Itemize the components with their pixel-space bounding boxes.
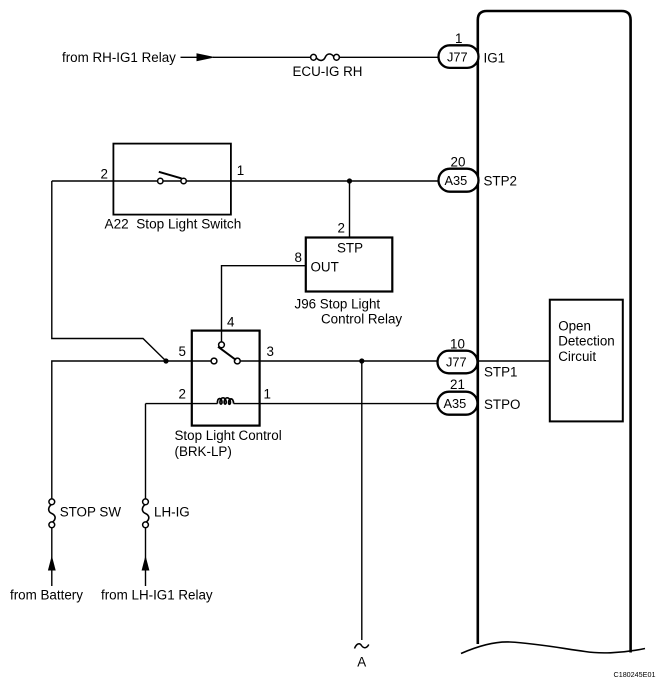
svg-text:1: 1	[455, 31, 462, 46]
svg-text:10: 10	[450, 337, 465, 352]
block Open Detection Circuit	[550, 300, 623, 422]
svg-text:A35: A35	[445, 173, 468, 188]
node: junction at pin5 feed	[163, 358, 168, 363]
svg-text:Control Relay: Control Relay	[321, 312, 402, 327]
connector J77 pin 10 (STP1)	[438, 351, 478, 374]
wire: coil to pin 1 / STPO	[234, 403, 438, 405]
wire: STP2 horizontal (A22 pin1 to A35)	[52, 180, 439, 182]
coil BRK-LP	[217, 398, 233, 404]
svg-text:Circuit: Circuit	[558, 349, 596, 364]
svg-text:ECU-IG RH: ECU-IG RH	[293, 64, 363, 79]
ECU boundary box (open bottom)	[478, 11, 631, 653]
svg-text:5: 5	[179, 344, 186, 359]
fuse STOP SW (circle-squiggle-circle vertical)	[49, 499, 55, 505]
svg-text:A22 Stop Light Switch: A22 Stop Light Switch	[105, 217, 242, 232]
svg-text:A35: A35	[444, 396, 467, 411]
arrow head (from Battery)	[48, 556, 56, 571]
pin 4 contact circle	[219, 342, 225, 348]
svg-text:3: 3	[267, 344, 274, 359]
svg-text:1: 1	[237, 163, 244, 178]
svg-text:OUT: OUT	[311, 260, 339, 275]
switch contacts A22	[158, 178, 163, 183]
svg-text:Stop Light Control: Stop Light Control	[175, 428, 282, 443]
wire: drop to node A	[361, 361, 363, 640]
wire: J96 pin 8 to BRK-LP pin 4	[222, 266, 306, 342]
svg-text:4: 4	[227, 315, 235, 330]
svg-text:IG1: IG1	[484, 51, 506, 66]
svg-text:STP1: STP1	[484, 365, 518, 380]
relay Stop Light Control BRK-LP (box)	[192, 331, 260, 426]
svg-text:1: 1	[264, 387, 271, 402]
wire: J96 pin 2 drop	[349, 181, 351, 238]
wire: pin 3 to STP1	[240, 360, 437, 362]
connector A35 pin 21 (STPO)	[438, 392, 478, 415]
wire: LH-IG1 relay feed below fuse	[145, 528, 147, 586]
svg-text:J96 Stop Light: J96 Stop Light	[295, 297, 381, 312]
svg-text:2: 2	[179, 387, 186, 402]
node: junction STP1 to A drop	[359, 358, 364, 363]
svg-text:J77: J77	[447, 49, 468, 64]
wire: from RH-IG1 Relay lead-in	[181, 56, 200, 58]
svg-text:Open: Open	[558, 319, 591, 334]
fuse LH-IG (circle-squiggle-circle vertical)	[143, 499, 149, 505]
fuse ECU-IG RH (circle-squiggle-circle)	[311, 54, 317, 60]
svg-text:STP: STP	[337, 241, 363, 256]
svg-text:from Battery: from Battery	[10, 588, 83, 603]
wire: fuse to J77 IG1	[339, 56, 439, 58]
wire: arrow to fuse ECU-IG RH	[213, 56, 311, 58]
ECU torn-bottom wavy line	[461, 642, 645, 654]
connector J77 pin 1 (IG1)	[439, 45, 479, 68]
svg-text:STPO: STPO	[484, 397, 520, 412]
svg-text:LH-IG: LH-IG	[154, 505, 190, 520]
wire: STP1 into Open Detection Circuit	[478, 360, 550, 362]
switch A22 Stop Light Switch (box)	[113, 144, 230, 215]
wire: battery feed below fuse	[51, 528, 53, 586]
wire: junction to pin 5	[166, 360, 212, 362]
svg-text:21: 21	[450, 377, 465, 392]
arrow head (from LH-IG1 Relay)	[142, 556, 150, 571]
node: junction on STP2 to J96 pin2	[347, 178, 352, 183]
svg-text:STOP SW: STOP SW	[60, 505, 122, 520]
connector A35 pin 20 (STP2)	[439, 169, 479, 192]
svg-text:A: A	[357, 654, 366, 669]
svg-text:J77: J77	[446, 355, 467, 370]
svg-text:(BRK-LP): (BRK-LP)	[175, 444, 232, 459]
switch blade A22	[159, 172, 182, 179]
svg-text:20: 20	[451, 154, 466, 169]
svg-text:from RH-IG1 Relay: from RH-IG1 Relay	[62, 50, 176, 65]
relay J96 Stop Light Control Relay (box)	[306, 238, 393, 292]
switch contacts BRK-LP	[211, 358, 217, 364]
svg-text:8: 8	[295, 250, 302, 265]
switch blade BRK-LP	[218, 347, 236, 360]
wire: pin 2 coil lead to LH-IG riser	[146, 403, 218, 405]
svg-text:STP2: STP2	[484, 174, 518, 189]
svg-text:2: 2	[338, 221, 345, 236]
wire: left riser from A22 pin2	[52, 181, 166, 499]
node A continuation squiggle	[355, 644, 369, 649]
svg-text:from LH-IG1 Relay: from LH-IG1 Relay	[101, 588, 213, 603]
arrow head (flow into IG1)	[197, 53, 216, 61]
svg-text:2: 2	[101, 167, 108, 182]
svg-text:C180245E01: C180245E01	[614, 670, 656, 679]
svg-text:Detection: Detection	[558, 334, 615, 349]
